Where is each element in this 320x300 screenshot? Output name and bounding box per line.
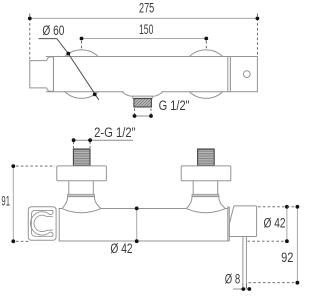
svg-text:Ø 60: Ø 60 xyxy=(42,23,64,38)
dim 91 xyxy=(12,166,14,241)
left bell escutcheon xyxy=(62,197,101,213)
holder plate right edge segments xyxy=(52,210,54,236)
shower holder bracket xyxy=(28,207,56,241)
outlet collar xyxy=(133,96,153,98)
holder C-ring end ties xyxy=(47,214,53,233)
svg-text:Ø 42: Ø 42 xyxy=(110,241,132,256)
O8 outlet pipe xyxy=(243,237,247,283)
extension line left 150 xyxy=(81,41,83,49)
joint line left xyxy=(52,57,54,92)
extension 92 bottom xyxy=(249,282,297,284)
left neck xyxy=(69,181,94,195)
bar top edge xyxy=(46,56,230,58)
right joint band xyxy=(228,207,230,241)
joint line right inner xyxy=(227,57,229,92)
holder C-ring inner arc xyxy=(34,215,47,231)
extension line right 150 xyxy=(205,41,207,50)
right neck xyxy=(193,181,218,195)
svg-text:275: 275 xyxy=(139,1,154,16)
svg-text:92: 92 xyxy=(281,250,293,265)
svg-text:Ø 8: Ø 8 xyxy=(225,271,240,286)
dim dots 150 xyxy=(80,37,84,41)
svg-text:Ø 42: Ø 42 xyxy=(264,216,286,231)
svg-text:150: 150 xyxy=(139,22,153,37)
leader O8 xyxy=(233,288,251,290)
bar bottom edge xyxy=(46,91,124,93)
bar body (top view) xyxy=(46,57,230,91)
dim line 150 xyxy=(82,38,207,40)
extension line right 275 xyxy=(256,14,258,56)
leader O60 xyxy=(39,39,99,100)
dim O42 left xyxy=(136,208,138,241)
leader 2-G1/2 xyxy=(72,139,133,141)
right end cap (top view) xyxy=(230,57,257,92)
joint line right outer xyxy=(229,57,231,92)
extension O42/92 top xyxy=(258,206,296,208)
outlet thread nipple G1/2 (hatched) xyxy=(134,98,152,107)
svg-text:2-G 1/2": 2-G 1/2" xyxy=(94,125,136,140)
bar body (front view) xyxy=(59,209,228,242)
central outlet boss xyxy=(122,92,163,97)
hole in right end cap xyxy=(243,71,250,78)
svg-text:91: 91 xyxy=(1,194,10,209)
right inlet thread 2-G1/2 xyxy=(198,149,215,165)
right ring xyxy=(192,194,219,196)
holder plate contour xyxy=(31,210,53,236)
right outlet housing xyxy=(229,206,256,237)
left ring xyxy=(68,194,95,196)
dim line G1/2 xyxy=(135,115,152,117)
left wall flange xyxy=(57,166,107,181)
dim line 275 xyxy=(30,17,258,19)
right bell escutcheon xyxy=(186,197,225,213)
knob circle right (O60) xyxy=(182,50,230,98)
dim 92 xyxy=(296,207,298,283)
right wall flange xyxy=(181,166,231,181)
extension O42 bottom xyxy=(248,240,286,242)
left inlet thread 2-G1/2 xyxy=(73,149,90,165)
knob circle left (O60) xyxy=(57,50,105,98)
holder C-ring outer arc xyxy=(31,212,51,235)
left end cap (top view) xyxy=(30,57,54,91)
leader dots O60 xyxy=(66,52,70,56)
extension lines for G1/2 nipple xyxy=(135,109,152,115)
extension line left 275 xyxy=(29,14,31,60)
dim dots 275 xyxy=(28,17,32,21)
svg-text:G 1/2": G 1/2" xyxy=(159,98,190,113)
dim O42 right xyxy=(286,207,288,241)
